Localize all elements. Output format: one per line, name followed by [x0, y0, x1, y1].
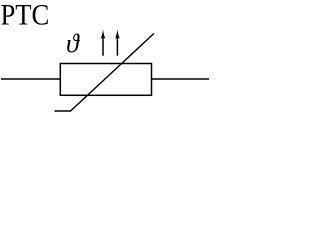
- wire left: [1, 78, 60, 80]
- thermistor diagonal stroke with bottom foot: [55, 33, 155, 111]
- wire right: [152, 78, 210, 80]
- svg-text:PTC: PTC: [1, 0, 50, 31]
- arrow up 2: [115, 29, 120, 56]
- resistor body rectangle: [60, 64, 151, 96]
- arrow up 1: [101, 29, 106, 56]
- svg-text:ϑ: ϑ: [66, 29, 80, 58]
